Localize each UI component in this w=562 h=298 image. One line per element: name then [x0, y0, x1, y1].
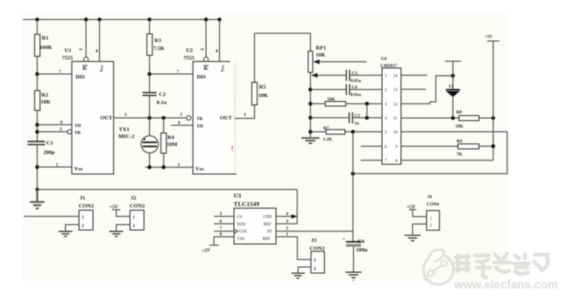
svg-text:DIS: DIS: [197, 75, 206, 81]
wire: LM2917 pin7 stub: [361, 159, 382, 161]
wire: pin8 line: [401, 159, 493, 161]
svg-text:56K: 56K: [327, 97, 336, 102]
scan background tint: [22, 13, 508, 281]
svg-text:7555: 7555: [183, 56, 194, 62]
svg-text:Vss: Vss: [195, 167, 204, 173]
node: junction bottom rail: [35, 188, 39, 192]
capacitor C1: [28, 141, 46, 143]
svg-text:R9: R9: [457, 139, 463, 144]
wire: microphone to Vss wire: [149, 153, 151, 167]
svg-text:7.5K: 7.5K: [153, 46, 165, 52]
svg-text:Vcc: Vcc: [99, 65, 104, 72]
svg-text:MIC-2: MIC-2: [118, 134, 134, 140]
node: +5V column junction upper: [491, 116, 495, 120]
power +5V below U3 pin8: [213, 237, 215, 245]
svg-text:Vss: Vss: [74, 167, 83, 173]
node: bus C4: [309, 88, 313, 92]
node: rail junction U1 pin4: [84, 18, 88, 22]
node: mic bottom junction: [148, 165, 152, 169]
wire: R2 bottom through TH/TR nodes to C1: [36, 110, 38, 141]
svg-text:12: 12: [393, 101, 397, 106]
node: junction at U1 DIS wire: [35, 72, 39, 76]
wire: U1 TH pin6: [37, 124, 72, 126]
node: rail junction R1: [35, 18, 39, 22]
ground at J1: [59, 231, 73, 236]
svg-text:1: 1: [385, 73, 387, 78]
wire: pin3 line right of R6: [346, 103, 382, 105]
wire: rail to U1 Vcc pin8: [99, 20, 101, 62]
svg-text:TLC1549: TLC1549: [234, 201, 260, 208]
wire: pin5 line left of R7: [310, 131, 326, 133]
wiper arrow RP1: [313, 59, 320, 64]
svg-text:REF: REF: [263, 236, 271, 241]
node: bus C5: [309, 116, 313, 120]
capacitor C5: [348, 112, 350, 123]
op-amp/timer U1 7555 box: [72, 62, 114, 175]
node: junction Vss wire: [35, 165, 39, 169]
wire: RP1 bottom bus: [309, 72, 311, 136]
node: junction U2 DIS: [148, 72, 152, 76]
svg-text:0.01u: 0.01u: [351, 78, 362, 83]
watermark Chinese text strokes: [456, 254, 548, 278]
wire: pin1 line right of C3: [350, 74, 382, 76]
wire: U1 TR pin2 to bubble: [37, 131, 68, 133]
wire: U3 pin4 to rail column with arrow: [276, 215, 297, 217]
capacitor C3: [345, 70, 347, 81]
wire: pin9 line right of R9: [479, 145, 493, 147]
wire: J1 pin1 stub: [24, 215, 79, 217]
resistor R8: [459, 116, 479, 121]
svg-text:R1: R1: [42, 36, 49, 42]
resistor R4: [161, 133, 166, 153]
pin bubble U1 reset: [84, 57, 89, 62]
svg-text:+5V: +5V: [485, 34, 494, 39]
svg-text:GND: GND: [263, 214, 272, 219]
red scan artifact: [232, 146, 233, 148]
node: diode column junction: [451, 74, 455, 78]
wire: pin11 line left of R8: [401, 117, 459, 119]
wire: R3 bottom to C2: [149, 55, 151, 92]
wire: U3 pin5 stub: [214, 215, 234, 217]
resistor R5: [252, 82, 257, 105]
wire: pin4 line right of C5: [353, 117, 383, 119]
svg-text:1: 1: [430, 217, 432, 221]
wire: U3 pin8 stub: [214, 236, 234, 238]
svg-text:10K: 10K: [258, 93, 269, 99]
wire: pin2 line left of C4: [310, 89, 346, 91]
wire: U2 TH stub: [171, 124, 193, 126]
svg-text:0.01u: 0.01u: [351, 92, 362, 97]
diode T1: [446, 89, 460, 91]
node: rail junction U2 pin4: [204, 18, 208, 22]
svg-text:+: +: [343, 237, 346, 242]
wire: LM2917 pin6 stub: [361, 145, 382, 147]
wire: bottom ground rail: [37, 189, 297, 191]
svg-text:TR: TR: [74, 130, 81, 135]
wire: rail to U1 reset bubble: [85, 20, 87, 58]
wire: C6 to ground: [353, 247, 355, 272]
ground at left rail: [30, 190, 44, 209]
svg-text:OUT: OUT: [220, 116, 232, 122]
svg-text:C6: C6: [358, 239, 365, 245]
svg-text:C2: C2: [159, 92, 166, 98]
node: junction C6 column on loop: [351, 172, 355, 176]
wire: C1 bottom to GND node: [36, 145, 38, 190]
wire: C2 bottom to OUT wire: [149, 95, 151, 118]
wire: U1 DIS pin7: [37, 73, 72, 75]
wire: pin10 line to outer loop: [353, 132, 507, 174]
resistor R2: [35, 91, 40, 111]
svg-text:CON2: CON2: [79, 203, 94, 209]
svg-text:TX1: TX1: [119, 127, 130, 133]
svg-text:R3: R3: [154, 38, 161, 44]
wire: U2 Vss pin1: [145, 166, 193, 168]
svg-text:13: 13: [393, 87, 397, 92]
svg-text:R7: R7: [323, 125, 329, 130]
svg-text:REF: REF: [264, 221, 272, 226]
wire: pin12 net to diode column: [401, 76, 453, 104]
svg-text:100u: 100u: [356, 247, 368, 253]
svg-text:8: 8: [395, 158, 397, 163]
svg-text:RP1: RP1: [316, 46, 326, 52]
svg-text:C5: C5: [354, 113, 360, 118]
wire: J1 pin2 to ground: [66, 225, 80, 231]
wire: U3 pin6 stub: [214, 223, 234, 225]
wire: rail to R1 top: [36, 20, 38, 35]
svg-text:DIS: DIS: [76, 75, 85, 81]
svg-text:R5: R5: [259, 85, 266, 91]
wire: U1 OUT pin3 to U2 trigger: [114, 117, 187, 119]
wire: +5V to J4 pin1: [413, 210, 427, 217]
wire: link R6 node to C5 node: [366, 104, 368, 118]
svg-text:www.elecfans.com: www.elecfans.com: [453, 279, 558, 292]
capacitor C2: [143, 92, 157, 94]
wire: pin4 line left of C5: [310, 117, 349, 119]
wire: R7 node down to C6: [352, 132, 354, 242]
wire: down to RP1 top: [309, 33, 311, 51]
svg-text:5: 5: [385, 130, 387, 135]
resistor R1: [35, 34, 40, 56]
resistor R9: [458, 144, 479, 149]
svg-text:7K: 7K: [457, 151, 463, 156]
capacitor C4: [345, 84, 347, 95]
wire: pin14 stub: [401, 74, 427, 76]
svg-text:DOU: DOU: [237, 221, 246, 226]
watermark logo elecfans: [424, 250, 454, 285]
node: junction TH: [35, 123, 39, 127]
pin bubble U2 reset: [204, 57, 209, 62]
wire: rail to U2 reset bubble: [205, 20, 207, 58]
svg-text:1n: 1n: [354, 120, 359, 125]
svg-text:10K: 10K: [316, 53, 327, 59]
IC U4 LM2917 box: [382, 68, 401, 164]
wire: rail corner to U2 Vcc pin8: [219, 20, 221, 62]
wire: R5 top to top link: [254, 33, 256, 82]
wire: link R5 to RP1: [255, 32, 311, 34]
resistor R3: [147, 34, 152, 55]
svg-text:CLK: CLK: [239, 229, 247, 234]
node: junction TR: [35, 130, 39, 134]
wire: pin1 line left of C3: [318, 74, 347, 76]
wire: OUT wire down to microphone: [149, 118, 151, 136]
wire: U3 pin3 to rail column: [276, 223, 297, 225]
svg-text:C4: C4: [352, 85, 358, 90]
node: bus R6: [309, 102, 313, 106]
svg-text:U1: U1: [65, 48, 72, 54]
wire: diode to pin11 line: [452, 97, 454, 118]
svg-text:CON2: CON2: [130, 203, 145, 209]
ground at C6: [346, 272, 362, 280]
svg-text:J2: J2: [131, 195, 137, 201]
wire: J2 pin2 to ground: [116, 225, 130, 231]
node: rail junction U1 pin8: [98, 18, 102, 22]
wire: U3 pin2 analog in: [276, 230, 353, 232]
node: junction C5 right: [365, 116, 369, 120]
svg-text:9: 9: [395, 144, 397, 149]
svg-text:3: 3: [385, 101, 387, 106]
svg-text:C3: C3: [352, 70, 358, 75]
svg-text:TR: TR: [197, 116, 204, 121]
arrow junction at pin1 line: [311, 73, 318, 78]
svg-text:2: 2: [430, 223, 432, 227]
svg-text:IN: IN: [267, 229, 271, 234]
svg-text:0.1u: 0.1u: [157, 100, 167, 106]
svg-text:TH: TH: [197, 123, 204, 128]
wire: pin11 line right of R8: [479, 117, 493, 119]
U3 internal pin names: [237, 214, 272, 241]
svg-text:10M: 10M: [167, 142, 179, 148]
svg-text:100K: 100K: [40, 45, 53, 51]
svg-text:1.2K: 1.2K: [323, 136, 333, 141]
svg-text:R4: R4: [167, 135, 174, 141]
op-amp/timer U2 7555 box: [193, 62, 237, 175]
svg-text:T1: T1: [448, 84, 454, 89]
wire: J3 pin2 to ground: [298, 267, 311, 273]
svg-text:R2: R2: [41, 92, 48, 98]
ground at J4: [405, 235, 421, 240]
wire: R1 bottom to DIS node: [36, 56, 38, 90]
pin bubble U1 TR: [67, 130, 71, 134]
svg-text:J4: J4: [427, 194, 432, 199]
wire: R4 bottom tie: [163, 153, 165, 167]
capacitor C6 polarized: [346, 241, 361, 243]
svg-text:U3: U3: [234, 193, 242, 200]
svg-text:OUT: OUT: [100, 116, 112, 122]
wire: top VCC rail: [23, 19, 220, 21]
svg-text:10: 10: [393, 130, 397, 135]
wire: J4 pin2 to ground: [413, 224, 427, 235]
ground at J2: [109, 231, 123, 236]
ground at J3: [291, 273, 304, 278]
node: junction R7/C6 column: [351, 130, 355, 134]
wire: pin9 line left of R9: [401, 145, 458, 147]
potentiometer RP1: [308, 51, 313, 72]
node: rail end corner U2 pin8: [218, 18, 222, 22]
svg-text:J1: J1: [80, 195, 86, 201]
wire: pin2 line right of C4: [350, 89, 382, 91]
node: R4 bottom junction: [162, 165, 166, 169]
node: diode junction on pin11 line: [451, 116, 455, 120]
wire: pin13 stub: [401, 88, 426, 90]
wire: +5V column: [492, 41, 494, 160]
resistor R6: [325, 102, 346, 107]
svg-text:U2: U2: [186, 48, 193, 54]
svg-text:200p: 200p: [43, 150, 54, 156]
svg-text:R8: R8: [456, 109, 462, 114]
wire: rail to R3: [149, 20, 151, 34]
wire: +5V to J2 pin1: [116, 210, 130, 217]
wire: U3 pin7 stub: [214, 230, 234, 232]
svg-text:TH: TH: [74, 123, 81, 128]
svg-text:11: 11: [393, 116, 397, 121]
svg-text:CON4: CON4: [427, 201, 440, 206]
svg-text:C1: C1: [46, 141, 53, 147]
svg-text:Vcc: Vcc: [220, 65, 225, 72]
wire: pin5 line right of R7: [345, 131, 382, 133]
wire: U2 OUT pin3 to R5: [235, 105, 255, 119]
pin bubble U2 trigger: [187, 116, 191, 120]
svg-text:VSS: VSS: [237, 236, 245, 241]
node: junction C2/mic column: [148, 116, 152, 120]
node: junction R4 column: [162, 116, 166, 120]
node: rail junction R3: [148, 18, 152, 22]
svg-text:10K: 10K: [41, 99, 52, 105]
wire: U1 Vss pin1: [37, 166, 72, 168]
wire: power bar to diode: [452, 61, 454, 89]
node: junction R6/C5: [365, 102, 369, 106]
svg-text:U4: U4: [381, 56, 387, 61]
wire: U2 DIS pin7: [150, 73, 193, 75]
node: bus R7: [309, 130, 313, 134]
node: +5V column junction lower: [491, 144, 495, 148]
svg-text:10K: 10K: [455, 124, 464, 129]
ground at RP1 bus: [301, 138, 319, 143]
svg-text:J3: J3: [311, 238, 317, 244]
wire: pin3 line left of R6: [310, 103, 325, 105]
microphone TX1 MIC-2: [141, 136, 158, 153]
wire: rail down to U3 right pins: [296, 190, 298, 224]
svg-text:LM2917: LM2917: [381, 63, 398, 68]
ADC U3 TLC1549 box: [234, 208, 276, 244]
svg-text:CS: CS: [237, 214, 243, 219]
wire: U3 pin1 to J3: [276, 237, 311, 260]
power bar above diode: [445, 60, 461, 62]
svg-text:7555: 7555: [62, 56, 73, 62]
resistor R7: [326, 130, 345, 135]
clock wedge U3 pin7: [234, 229, 238, 233]
svg-text:2: 2: [385, 87, 387, 92]
wire: R4 top tie: [163, 118, 165, 133]
